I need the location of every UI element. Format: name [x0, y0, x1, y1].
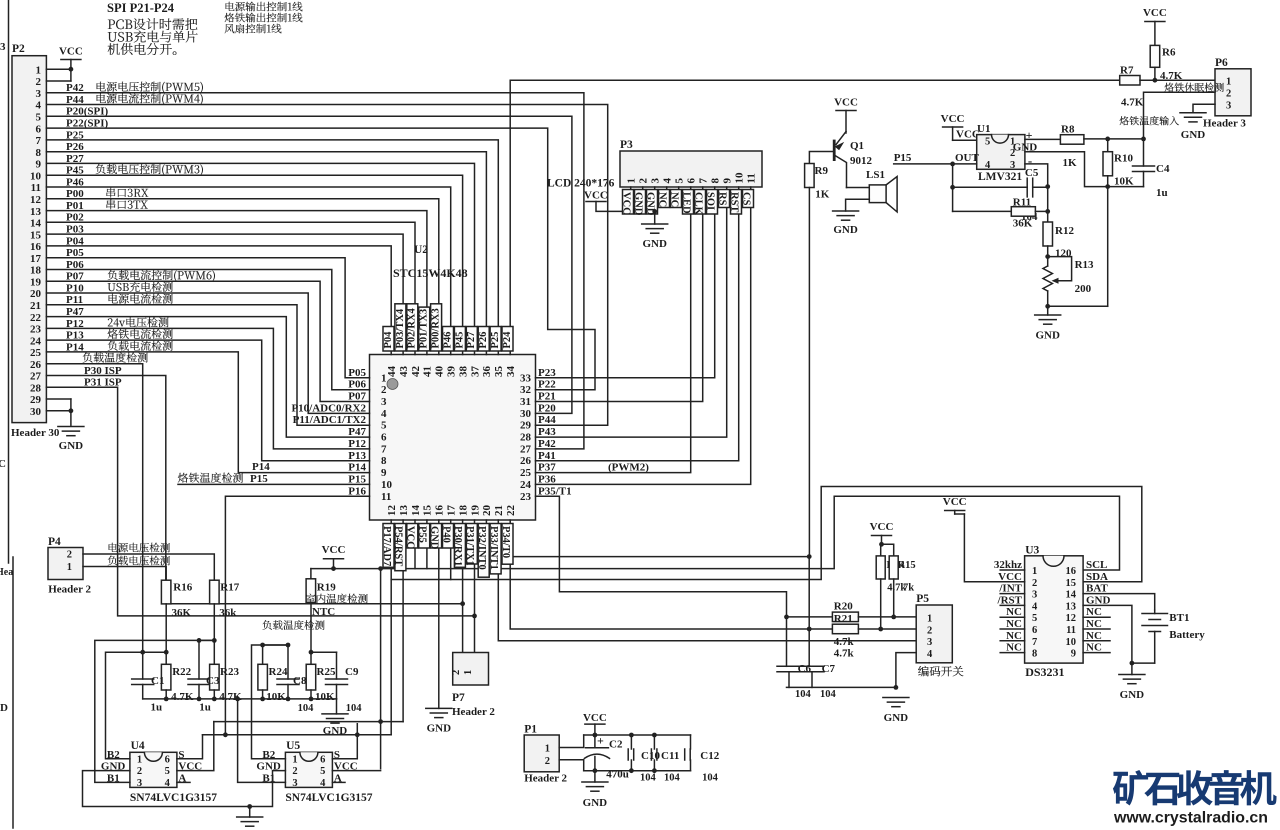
wire R10 bottom node down: [1107, 187, 1109, 307]
svg-text:4: 4: [927, 649, 933, 660]
svg-text:9: 9: [1071, 649, 1076, 660]
wire R17 bottom to node: [213, 604, 215, 664]
wire P21 to P3 CLK: [536, 187, 703, 402]
wire U4 S riser: [177, 735, 203, 759]
svg-text:4.7k: 4.7k: [834, 636, 855, 648]
wire rail to gnd: [336, 699, 338, 714]
svg-text:R13: R13: [1075, 259, 1094, 271]
svg-text:GND: GND: [428, 526, 439, 550]
resistor R15 4.7k: [882, 544, 894, 556]
svg-text:104: 104: [640, 773, 657, 784]
svg-text:3: 3: [381, 396, 387, 408]
svg-text:2: 2: [67, 550, 72, 561]
wire P2 pin2 to VCC: [46, 80, 71, 82]
svg-text:SN74LVC1G3157: SN74LVC1G3157: [285, 792, 372, 804]
ground at bottom center: [237, 816, 263, 818]
net label P55: [419, 524, 430, 549]
svg-text:GND: GND: [1181, 129, 1206, 141]
svg-text:1: 1: [67, 562, 72, 573]
wire P2 pin29 to ground: [46, 398, 71, 400]
net label 电源电流控制(PWM4): [96, 93, 105, 103]
svg-text:P01/TX3: P01/TX3: [419, 309, 430, 349]
wire P54/RST pin13 down to rail A: [402, 520, 404, 722]
capacitor C3 1u: [199, 639, 214, 641]
capacitor C8 104: [263, 644, 288, 646]
svg-text:1: 1: [1226, 77, 1231, 88]
svg-text:4: 4: [662, 178, 674, 184]
svg-text:14: 14: [410, 505, 422, 517]
svg-text:P43: P43: [538, 426, 556, 438]
wire P17/AD7 pin12 down to select rail B: [390, 520, 392, 735]
net label NC: [671, 190, 682, 208]
wire net P20 row: [46, 116, 572, 413]
connector P1 Header 2: [524, 735, 559, 772]
svg-text:23: 23: [520, 491, 532, 503]
ground under U2 pin16: [426, 707, 452, 709]
svg-text:2: 2: [927, 626, 932, 637]
svg-text:STC15W4K48: STC15W4K48: [393, 266, 468, 280]
wire 负载温度检测 row26 down to C1 node: [46, 364, 142, 653]
svg-text:P17/AD7: P17/AD7: [381, 526, 392, 566]
svg-text:CS: CS: [740, 192, 751, 206]
svg-text:BAT: BAT: [1086, 583, 1108, 595]
P3 NC stubs: [666, 187, 668, 199]
svg-text:32: 32: [520, 384, 532, 396]
svg-text:9: 9: [381, 467, 387, 479]
svg-text:C11: C11: [661, 750, 679, 762]
svg-text:GND: GND: [884, 712, 909, 724]
svg-text:P10/ADC0/RX2: P10/ADC0/RX2: [291, 402, 366, 414]
svg-text:3: 3: [927, 637, 932, 648]
svg-text:10K: 10K: [266, 691, 286, 703]
wire LS1 to ground: [846, 199, 870, 211]
svg-text:GND: GND: [427, 723, 452, 735]
wire battery to ground: [1132, 662, 1155, 664]
capacitor C9 104: [311, 651, 337, 653]
net label CLK: [695, 190, 706, 215]
svg-text:34: 34: [505, 366, 517, 378]
net label P01/TX3: [419, 307, 430, 351]
resistor R10 10K: [1107, 139, 1109, 152]
svg-text:-: -: [1028, 153, 1032, 168]
net label GND: [431, 524, 442, 549]
wire VCC pin14 down: [414, 520, 416, 569]
svg-text:104: 104: [298, 703, 315, 714]
svg-text:4.7K: 4.7K: [1121, 97, 1144, 109]
wire net P22 row with jog: [46, 128, 595, 390]
net label RS: [719, 190, 730, 208]
svg-text:VCC: VCC: [583, 712, 607, 724]
resistor R6 4.7K: [1150, 45, 1160, 67]
svg-text:P32/INT0: P32/INT0: [476, 526, 487, 570]
wire bottom gnd stub: [249, 807, 251, 818]
svg-text:NC: NC: [1006, 642, 1022, 654]
wire P43 to P3 RS: [536, 187, 727, 437]
connector P4 Header 2: [48, 548, 83, 580]
svg-text:6: 6: [1032, 625, 1037, 636]
wire U4 B2 loop to R22/C1 node: [106, 652, 142, 759]
svg-text:30: 30: [520, 408, 532, 420]
svg-text:CLK: CLK: [692, 192, 703, 216]
svg-text:U3: U3: [1025, 545, 1039, 557]
net label P03/TX4: [395, 304, 406, 351]
svg-text:/INT: /INT: [998, 583, 1022, 595]
svg-text:10K: 10K: [315, 691, 335, 703]
ground at P2: [58, 426, 84, 428]
svg-text:P33/INT1: P33/INT1: [488, 526, 499, 570]
svg-text:31: 31: [520, 396, 531, 408]
svg-text:P4: P4: [48, 536, 61, 548]
net label 负载电流控制(PWM6): [108, 270, 118, 280]
resistor R16 36K: [161, 580, 171, 604]
svg-text:GND: GND: [1086, 594, 1111, 606]
wire gnd cap rail: [584, 770, 691, 772]
svg-text:6: 6: [686, 178, 698, 184]
wire P16 from U2 pin11 down to select line: [225, 496, 369, 735]
svg-text:17: 17: [446, 505, 458, 517]
net label 负载温度检测: [83, 352, 93, 362]
svg-text:22: 22: [30, 312, 42, 324]
svg-text:5: 5: [36, 112, 42, 124]
svg-text:104: 104: [346, 703, 363, 714]
svg-text:10K: 10K: [1114, 176, 1134, 188]
svg-text:104: 104: [820, 689, 837, 700]
svg-text:SOI: SOI: [704, 192, 715, 210]
svg-text:P44: P44: [538, 414, 556, 426]
svg-text:36: 36: [481, 366, 493, 378]
wire node to P6 pin1: [1140, 79, 1215, 81]
svg-text:2: 2: [451, 670, 462, 675]
wire P2 pin1 to VCC: [46, 68, 71, 70]
svg-text:C12: C12: [700, 750, 719, 762]
wire R6 to R7 node: [1154, 67, 1156, 80]
wires P25 P26 P27 P45 P46 P00 P01 P02 P03 P04 to U2 top pins: [46, 140, 498, 355]
net label P33/INT1: [490, 524, 501, 574]
wire P4 pin2 电源电压检测 to R17: [83, 554, 214, 580]
svg-text:33: 33: [520, 372, 532, 384]
svg-text:D: D: [0, 702, 8, 714]
svg-text:21: 21: [30, 300, 41, 312]
wire VCC down to rail: [333, 559, 335, 569]
wire U3 BAT to battery: [1083, 594, 1155, 610]
svg-text:R16: R16: [173, 582, 192, 594]
svg-text:19: 19: [30, 276, 42, 288]
svg-text:LED: LED: [680, 192, 691, 214]
svg-text:P04: P04: [383, 331, 394, 349]
svg-text:P36: P36: [538, 473, 556, 485]
svg-text:C2: C2: [609, 739, 623, 751]
net label P40: [443, 524, 454, 549]
svg-text:www.crystalradio.cn: www.crystalradio.cn: [1113, 810, 1268, 827]
net label VCC: [407, 524, 418, 549]
wire R12 to R13: [1047, 246, 1049, 266]
svg-text:15: 15: [30, 229, 42, 241]
svg-text:18: 18: [30, 265, 42, 277]
svg-text:LS1: LS1: [866, 169, 885, 181]
svg-text:Q1: Q1: [850, 140, 864, 152]
svg-text:1: 1: [137, 754, 142, 765]
svg-text:10: 10: [30, 170, 42, 182]
svg-text:36K: 36K: [1013, 218, 1033, 230]
svg-text:Header 2: Header 2: [48, 584, 91, 596]
svg-text:C1: C1: [151, 675, 164, 687]
svg-text:104: 104: [664, 773, 681, 784]
wire P24 pin34 up to R7 row: [510, 80, 1119, 354]
svg-text:C: C: [0, 458, 6, 470]
svg-text:P21: P21: [538, 391, 556, 403]
capacitor C7 104: [808, 629, 810, 666]
op-amp U1 LMV321: [977, 135, 1025, 170]
net label 串口3TX: [106, 199, 115, 209]
svg-text:LMV321: LMV321: [978, 171, 1022, 183]
svg-text:P05: P05: [348, 367, 366, 379]
net label 烙铁温度输入: [1119, 116, 1128, 125]
svg-text:SPI P21-P24: SPI P21-P24: [107, 1, 175, 15]
svg-text:R10: R10: [1114, 153, 1133, 165]
svg-text:R21: R21: [834, 613, 853, 625]
ground at C2: [582, 781, 608, 783]
wire VCC to U3 pin2: [954, 511, 956, 515]
svg-text:1: 1: [36, 64, 42, 76]
net label P30/RX1: [454, 524, 465, 568]
wire cap ground rail: [787, 686, 896, 688]
svg-text:P5: P5: [916, 593, 929, 605]
svg-text:P1: P1: [524, 724, 537, 736]
svg-text:P16: P16: [348, 485, 366, 497]
svg-text:VCC: VCC: [870, 521, 894, 533]
net label VCC: [623, 190, 634, 215]
svg-text:27: 27: [520, 443, 532, 455]
svg-text:P34/T0: P34/T0: [500, 526, 511, 558]
svg-text:28: 28: [520, 432, 532, 444]
svg-text:5: 5: [674, 178, 686, 184]
svg-text:P15: P15: [250, 473, 268, 485]
net label P04: [383, 327, 394, 352]
capacitor C4 1u: [1133, 165, 1155, 167]
net label NC: [659, 190, 670, 208]
resistor R25 10K: [310, 602, 312, 664]
resistor R11 36K: [953, 210, 1012, 212]
net label 电源电压控制(PWM5): [96, 82, 105, 92]
svg-text:4.7K: 4.7K: [171, 691, 194, 703]
resistor R22 4.7K: [161, 664, 171, 690]
svg-text:11: 11: [1066, 625, 1076, 636]
svg-text:(PWM2): (PWM2): [608, 462, 649, 474]
svg-text:29: 29: [520, 420, 532, 432]
svg-text:6: 6: [36, 123, 42, 135]
wire U5 A stub: [332, 781, 345, 783]
svg-text:P20: P20: [538, 402, 556, 414]
svg-text:43: 43: [398, 366, 410, 378]
svg-text:12: 12: [30, 194, 42, 206]
svg-text:GND: GND: [1120, 689, 1145, 701]
wire U4 A stub: [177, 781, 190, 783]
svg-text:P25: P25: [490, 332, 501, 349]
connector P2 (Header 30): [12, 56, 46, 423]
wire R16 bottom to node: [165, 604, 167, 664]
svg-text:15: 15: [422, 505, 434, 517]
svg-text:2: 2: [1032, 578, 1037, 589]
wire C2 to ground: [594, 771, 596, 782]
ground at U3: [1119, 674, 1145, 676]
svg-text:1: 1: [463, 670, 474, 675]
svg-text:R6: R6: [1162, 47, 1176, 59]
svg-text:12: 12: [1066, 613, 1077, 624]
svg-text:11: 11: [31, 182, 41, 194]
wire R14 bottom to row2: [880, 579, 882, 629]
svg-text:LCD 240*176: LCD 240*176: [547, 178, 615, 190]
svg-text:P7: P7: [452, 692, 465, 704]
wire P6 pin3 to ground: [1193, 104, 1215, 113]
net label 串口3RX: [106, 188, 115, 198]
svg-text:5: 5: [1032, 613, 1037, 624]
svg-text:P15: P15: [348, 473, 366, 485]
wire net P44 row: [46, 105, 607, 426]
svg-text:1: 1: [626, 178, 638, 184]
svg-text:R25: R25: [317, 666, 336, 678]
svg-text:P00/RX3: P00/RX3: [431, 308, 442, 348]
transistor Q1 9012: [833, 141, 836, 160]
svg-text:24: 24: [520, 479, 532, 491]
svg-text:7k: 7k: [903, 583, 914, 594]
wires P05 P06 P07 P10 P11 P47 P12 P13 P14 to U2 left pins: [46, 258, 369, 378]
wire U4 VCC riser: [177, 722, 214, 771]
svg-text:4: 4: [165, 778, 171, 789]
svg-text:P11/ADC1/TX2: P11/ADC1/TX2: [293, 414, 367, 426]
svg-text:13: 13: [1066, 601, 1077, 612]
wire P30 ISP row27: [46, 376, 462, 604]
svg-text:26: 26: [520, 455, 532, 467]
svg-text:3: 3: [650, 178, 662, 184]
svg-text:3: 3: [1226, 101, 1231, 112]
svg-text:SCL: SCL: [1086, 559, 1107, 571]
net label P54/RST: [395, 524, 406, 571]
svg-text:1: 1: [927, 614, 932, 625]
svg-text:17: 17: [30, 253, 42, 265]
svg-text:120: 120: [1055, 248, 1072, 260]
resistor R23 4.7K: [210, 664, 220, 690]
svg-text:R19: R19: [317, 582, 336, 594]
svg-text:VCC: VCC: [59, 46, 83, 58]
svg-text:1u: 1u: [1156, 187, 1168, 199]
svg-text:3: 3: [137, 778, 142, 789]
net label SOI: [707, 190, 718, 215]
svg-text:44: 44: [386, 366, 398, 378]
svg-text:2: 2: [545, 756, 550, 767]
net label P27: [466, 327, 477, 352]
svg-text:U4: U4: [131, 740, 145, 752]
svg-text:Hea: Hea: [0, 567, 13, 578]
wire P1 pin1 to vcc rail: [559, 735, 584, 748]
svg-text:32khz: 32khz: [994, 559, 1022, 571]
ground at LS1: [833, 210, 859, 212]
svg-text:30: 30: [30, 406, 42, 418]
net label P34/T0: [502, 524, 513, 565]
svg-text:VCC: VCC: [1143, 7, 1167, 19]
svg-text:P41: P41: [538, 450, 556, 462]
svg-text:11: 11: [746, 173, 758, 183]
net label 负载电压检测: [108, 556, 117, 566]
net label 负载电流检测: [108, 341, 118, 351]
svg-text:P03/TX4: P03/TX4: [395, 308, 406, 348]
svg-text:P13: P13: [348, 450, 366, 462]
svg-text:NC: NC: [1006, 618, 1022, 630]
svg-text:3: 3: [0, 41, 6, 53]
svg-text:C8: C8: [293, 675, 307, 687]
svg-text:3: 3: [36, 88, 42, 100]
wire P31 ISP row28: [46, 387, 474, 616]
wire U5 B2 loop to R24 node: [252, 645, 289, 759]
svg-text:5: 5: [320, 766, 325, 777]
svg-text:39: 39: [446, 366, 458, 378]
wire R15 bottom to row1: [893, 579, 895, 617]
wire U3 GND pin13: [1083, 605, 1132, 663]
svg-text:RS: RS: [716, 192, 727, 206]
cut-off connector at left edge: [8, 0, 10, 563]
net label 24v电压检测: [108, 318, 113, 326]
net label GND: [647, 190, 658, 215]
capacitor C11 104: [650, 749, 652, 760]
svg-text:GND: GND: [632, 192, 643, 216]
svg-text:P54/RST: P54/RST: [393, 526, 404, 566]
svg-text:P14: P14: [252, 461, 270, 473]
svg-text:VCC: VCC: [943, 496, 967, 508]
svg-text:P31/TX1: P31/TX1: [464, 526, 475, 566]
svg-text:19: 19: [469, 505, 481, 517]
svg-text:8: 8: [1032, 649, 1037, 660]
svg-text:+: +: [597, 734, 604, 748]
svg-text:P47: P47: [348, 426, 366, 438]
svg-text:P46: P46: [442, 332, 453, 349]
svg-text:R17: R17: [220, 582, 239, 594]
ground at P5: [883, 697, 909, 699]
analog switch U5 SN74LVC1G3157: [285, 752, 332, 787]
svg-text:P6: P6: [1215, 57, 1228, 69]
net label LED: [683, 190, 694, 215]
net label 电源电压检测: [109, 543, 118, 552]
svg-text:P07: P07: [348, 391, 366, 403]
net label 烙铁休眠检测: [1164, 83, 1173, 92]
svg-text:GND: GND: [59, 440, 84, 452]
net label P24: [502, 327, 513, 352]
wire U4 GND to bottom rail: [83, 771, 286, 807]
svg-text:Battery: Battery: [1169, 629, 1205, 641]
capacitor C12 104: [684, 749, 686, 760]
svg-text:C4: C4: [1156, 163, 1170, 175]
svg-text:NC: NC: [1086, 630, 1102, 642]
wire P34 pin22 to encoder row2: [510, 520, 809, 629]
svg-text:P2: P2: [12, 43, 25, 55]
svg-text:18: 18: [457, 505, 469, 517]
net label P46: [443, 327, 454, 352]
net label 室内温度检测: [305, 594, 315, 603]
svg-text:P06: P06: [348, 379, 366, 391]
svg-text:1u: 1u: [151, 702, 163, 714]
svg-text:14: 14: [1066, 590, 1077, 601]
net label P17/AD7: [383, 524, 394, 568]
svg-text:1: 1: [545, 744, 550, 755]
svg-text:25: 25: [520, 467, 532, 479]
svg-text:NC: NC: [1006, 606, 1022, 618]
svg-text:R15: R15: [898, 560, 916, 571]
net label P26: [478, 327, 489, 352]
svg-text:NC: NC: [1086, 618, 1102, 630]
svg-text:9: 9: [722, 178, 734, 184]
net label P31/TX1: [466, 524, 477, 565]
resistor R8 1K: [1060, 135, 1084, 145]
svg-text:RST: RST: [728, 192, 739, 212]
net label 烙铁温度检测 P15: [178, 473, 188, 483]
